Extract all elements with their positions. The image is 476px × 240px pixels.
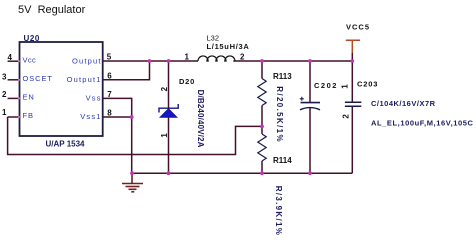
- svg-text:D/B240/40V/2A: D/B240/40V/2A: [196, 90, 205, 148]
- wire pin8: [103, 116, 132, 118]
- inductor L32 coil: [198, 56, 235, 61]
- svg-text:1: 1: [160, 133, 169, 138]
- svg-text:1: 1: [341, 84, 350, 89]
- wire D20 cathode column: [168, 61, 170, 108]
- svg-text:2: 2: [342, 114, 351, 119]
- junction dots: [130, 59, 354, 175]
- wire C202 column bottom: [309, 108, 311, 174]
- wire C203 column bottom: [351, 106, 353, 173]
- svg-text:5V Regulator: 5V Regulator: [18, 4, 86, 16]
- svg-text:U20: U20: [24, 34, 40, 43]
- svg-text:D20: D20: [179, 77, 195, 86]
- wire ground rail: [132, 172, 353, 174]
- wire Vss column down to ground rail: [131, 117, 133, 173]
- wire pin6 to rail: [103, 61, 150, 80]
- node R113/rail: [260, 59, 264, 63]
- svg-text:C202: C202: [314, 81, 338, 90]
- node C202/ground rail: [308, 171, 312, 175]
- resistor R114 zigzag: [258, 134, 266, 161]
- svg-text:Output: Output: [72, 56, 102, 65]
- wire R113 column top: [261, 61, 263, 79]
- svg-text:3: 3: [2, 72, 7, 81]
- wire D20 anode column: [168, 117, 170, 173]
- svg-text:R113: R113: [273, 72, 292, 81]
- pin end dots: [18, 60, 20, 118]
- svg-text:1: 1: [185, 53, 190, 62]
- node D20/ground rail: [167, 171, 171, 175]
- wire top rail after inductor: [233, 60, 352, 62]
- ground symbol: [122, 173, 143, 192]
- resistor R113 zigzag: [258, 79, 266, 106]
- svg-text:Vss1: Vss1: [80, 112, 101, 121]
- capacitor C203 plate 2: [345, 105, 361, 107]
- node D20/rail: [167, 59, 171, 63]
- svg-text:U/AP 1534: U/AP 1534: [46, 140, 86, 149]
- svg-text:EN: EN: [23, 92, 35, 101]
- svg-text:2: 2: [160, 86, 169, 91]
- capacitor C202 plus sign: [300, 97, 304, 101]
- svg-text:R114: R114: [273, 156, 292, 165]
- capacitor C202 curved plate: [300, 108, 320, 110]
- svg-text:VCC5: VCC5: [346, 23, 370, 32]
- node ground: [130, 171, 134, 175]
- node VCC/C203/rail: [350, 59, 354, 63]
- wire pin3 stub: [8, 79, 20, 81]
- svg-text:L/15uH/3A: L/15uH/3A: [207, 42, 250, 51]
- svg-text:2: 2: [2, 90, 7, 99]
- wire pin4 stub: [8, 60, 20, 62]
- diode D20 schottky bar: [159, 104, 178, 113]
- svg-text:Vss: Vss: [86, 93, 102, 102]
- power VCC5 symbol: [346, 40, 360, 53]
- svg-text:C/104K/16V/X7R: C/104K/16V/X7R: [371, 99, 436, 108]
- wire C202 column top: [309, 61, 311, 103]
- op-amp U20 regulator IC box: [20, 42, 103, 136]
- svg-text:FB: FB: [23, 111, 34, 120]
- diode D20 schottky triangle: [160, 109, 177, 118]
- node pin7/pin8: [130, 115, 134, 119]
- svg-text:Vcc: Vcc: [23, 56, 37, 65]
- svg-text:AL_EL,100uF,M,16V,105C: AL_EL,100uF,M,16V,105C: [371, 118, 474, 127]
- node C202/rail: [308, 59, 312, 63]
- wire pin1 FB stub: [8, 116, 20, 118]
- capacitor C203 plate 1: [345, 101, 361, 103]
- wire pin2 stub: [8, 97, 20, 99]
- svg-text:OSCET: OSCET: [23, 74, 53, 83]
- wire top rail pin5 to inductor: [103, 60, 198, 62]
- wire pin7: [103, 98, 132, 117]
- wire R113-R114 node segment: [261, 106, 263, 135]
- node R114/ground rail: [260, 171, 264, 175]
- svg-text:1: 1: [2, 108, 7, 117]
- svg-text:8: 8: [107, 109, 112, 118]
- wire R114 bottom: [261, 161, 263, 173]
- node pin6/rail: [148, 59, 152, 63]
- svg-text:R/3.9K/1%: R/3.9K/1%: [274, 186, 283, 235]
- svg-text:2: 2: [240, 53, 245, 62]
- node FB divider: [260, 125, 264, 129]
- svg-text:C203: C203: [357, 80, 378, 89]
- capacitor C202 top plate: [301, 102, 321, 104]
- svg-text:R/20.5K/1%: R/20.5K/1%: [275, 86, 284, 143]
- svg-text:Output1: Output1: [67, 75, 102, 84]
- wire C203 column top: [351, 61, 353, 102]
- wire FB feedback trace: [8, 117, 262, 155]
